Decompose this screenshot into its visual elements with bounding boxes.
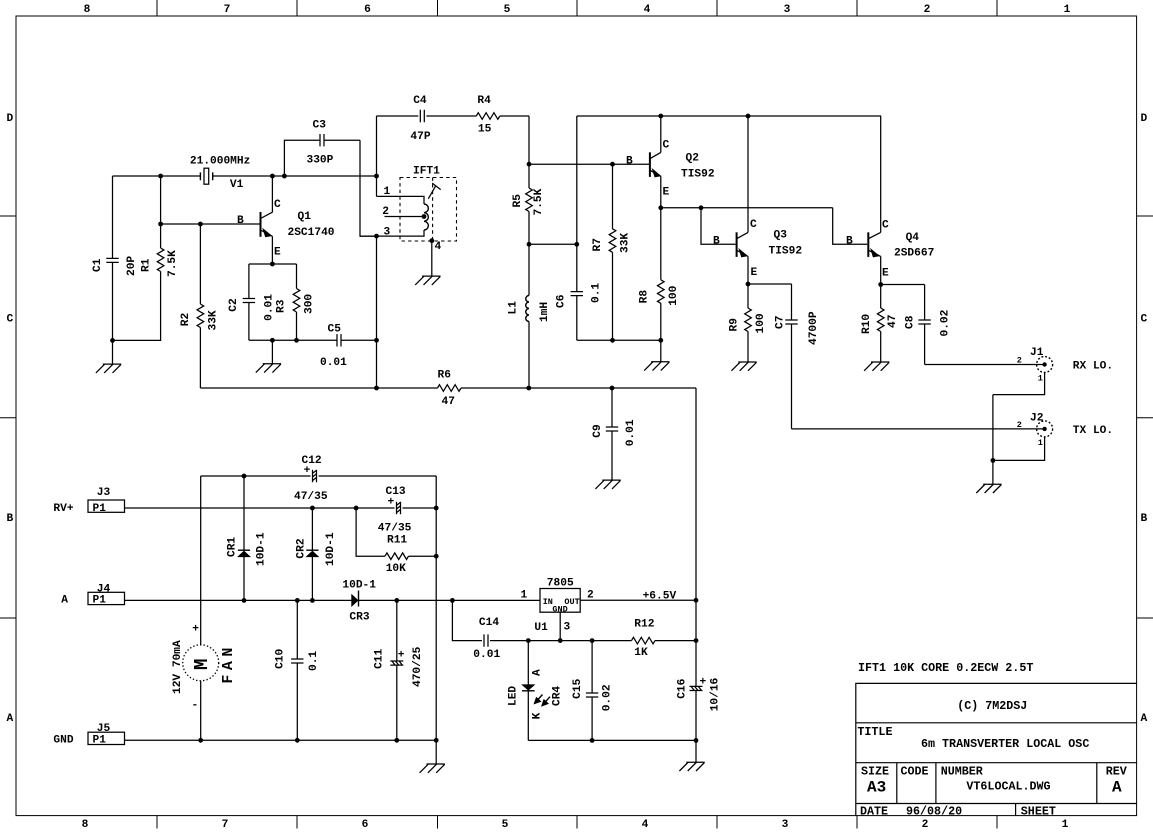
ground J1/J2 shield (992, 460, 994, 484)
svg-text:RX LO.: RX LO. (1073, 360, 1113, 372)
svg-text:96/08/20: 96/08/20 (906, 805, 962, 819)
capacitor C15 (591, 641, 593, 741)
capacitor C7 (748, 284, 792, 429)
svg-text:A: A (1112, 779, 1122, 797)
junction (160.6,176) (158, 174, 163, 179)
capacitor C3 loop (284, 140, 376, 236)
junction (612.5,164.2) (610, 162, 615, 167)
svg-text:B: B (1140, 513, 1147, 525)
svg-text:1mH: 1mH (539, 302, 551, 322)
junction (200.7,740.3) (198, 738, 203, 743)
junction (529,244.3) (527, 242, 532, 247)
svg-text:1: 1 (1062, 819, 1069, 831)
svg-text:A: A (1140, 713, 1147, 725)
junction (297.3,740.3) (295, 738, 300, 743)
svg-text:+: + (700, 677, 707, 689)
ground Q2 stage (660, 340, 662, 362)
resistor R12 (632, 637, 656, 644)
regulator U1 7805 box (540, 589, 580, 613)
svg-text:R11: R11 (387, 534, 407, 546)
junction (160.6,224) (158, 222, 163, 227)
junction (296.5,340.3) (294, 338, 299, 343)
svg-text:4: 4 (642, 819, 649, 831)
ground under R10 (864, 362, 889, 371)
junction (284.4,176) (282, 174, 287, 179)
junction (696,640.6) (694, 638, 699, 643)
svg-text:P1: P1 (93, 734, 107, 746)
resistor R5 (528, 164, 530, 244)
wire C2 bottom rail y=340.3 (249, 339, 297, 341)
svg-text:VT6LOCAL.DWG: VT6LOCAL.DWG (966, 780, 1050, 794)
svg-text:0.02: 0.02 (940, 309, 952, 336)
svg-text:CR1: CR1 (227, 537, 239, 557)
svg-text:P1: P1 (93, 503, 107, 515)
resistor R1 (113, 176, 161, 340)
svg-text:33K: 33K (208, 310, 220, 330)
capacitor C4 (420, 110, 424, 122)
connector J3 box (88, 500, 125, 512)
junction (701,207.8) (699, 205, 704, 210)
LED CR4 (527, 641, 529, 741)
wire R6 rail y=388 (200, 387, 696, 389)
transistor Q2 (649, 152, 651, 177)
resistor R7 (612, 164, 614, 340)
svg-text:R3: R3 (276, 299, 288, 313)
svg-text:0.1: 0.1 (591, 283, 603, 303)
svg-text:1K: 1K (634, 647, 648, 659)
IFT1 transformer (400, 178, 457, 242)
svg-text:C5: C5 (328, 324, 342, 336)
svg-text:C15: C15 (572, 678, 584, 698)
svg-text:7805: 7805 (547, 578, 574, 590)
capacitor C2 (248, 264, 250, 340)
bottom ruler labels (82, 819, 1069, 831)
capacitor C13 (397, 502, 401, 514)
svg-text:IFT1 10K CORE 0.2ECW 2.5T: IFT1 10K CORE 0.2ECW 2.5T (858, 661, 1033, 675)
svg-text:2: 2 (924, 4, 931, 16)
resistor R9 (747, 284, 749, 362)
svg-text:CR4: CR4 (551, 686, 563, 706)
capacitor C9 (611, 388, 613, 480)
wire to J2 (792, 428, 1045, 430)
ground under R9 (731, 362, 756, 371)
svg-text:3: 3 (782, 819, 789, 831)
svg-text:-: - (192, 700, 199, 712)
svg-text:C: C (1140, 314, 1147, 326)
svg-text:A: A (531, 669, 543, 676)
svg-text:C: C (882, 219, 889, 231)
svg-text:CR2: CR2 (296, 538, 308, 558)
bottom ruler ticks (157, 816, 997, 829)
wire Q4 base drop (833, 208, 868, 244)
wire Q2 base rail y=164.2 (529, 163, 649, 165)
svg-text:Q2: Q2 (686, 153, 700, 165)
capacitor C14 (484, 634, 488, 646)
capacitor C12 (313, 470, 317, 482)
wire J1 pin1 to ground net (993, 373, 1045, 461)
junction (592.1,740.4) (590, 738, 595, 743)
junction (200.4,224) (198, 222, 203, 227)
svg-text:R12: R12 (634, 619, 654, 631)
svg-text:E: E (274, 247, 281, 259)
transistor Q4 (867, 232, 869, 257)
ground under C1 (96, 364, 121, 373)
junction (612,388) (610, 386, 615, 391)
wire C4 node vertical x=376.5 (376, 116, 378, 196)
svg-text:E: E (663, 187, 670, 199)
junction (748,284) (746, 282, 751, 287)
svg-text:B: B (846, 236, 853, 248)
junction (356.1,508) (354, 506, 359, 511)
svg-text:B: B (713, 235, 720, 247)
wire +6.5V rail y=600.3 (580, 599, 696, 601)
svg-text:300: 300 (304, 294, 316, 314)
ground power input (435, 740, 437, 764)
junction (880.7,284.5) (878, 282, 883, 287)
svg-text:R7: R7 (592, 238, 604, 251)
svg-text:47/35: 47/35 (378, 523, 412, 535)
left ruler labels (6, 113, 13, 725)
svg-text:15: 15 (478, 124, 492, 136)
svg-text:2SC1740: 2SC1740 (288, 227, 335, 239)
svg-text:C3: C3 (313, 120, 327, 132)
svg-text:8: 8 (82, 819, 89, 831)
svg-text:2: 2 (1017, 356, 1022, 366)
svg-text:47P: 47P (410, 131, 430, 143)
junction (992.9,460.4) (991, 458, 996, 463)
junction (297.3,600.4) (295, 598, 300, 603)
svg-text:3: 3 (384, 226, 391, 238)
junction (424,216.5) (422, 214, 427, 219)
junction (272.4,340.3) (270, 338, 275, 343)
svg-text:330P: 330P (307, 155, 334, 167)
svg-text:47: 47 (887, 315, 899, 328)
svg-text:D: D (6, 113, 13, 125)
svg-text:LED: LED (508, 686, 520, 706)
svg-text:FAN: FAN (220, 643, 237, 684)
junction (376.5,388) (374, 386, 379, 391)
svg-text:7.5K: 7.5K (167, 250, 179, 277)
svg-text:SHEET: SHEET (1021, 805, 1056, 819)
svg-text:E: E (882, 267, 889, 279)
junction (312.4,508) (310, 506, 315, 511)
capacitor C11 (396, 600, 398, 740)
wire RV+ rail y=507.5 (125, 507, 437, 509)
junction (376.5,236.1) (374, 234, 379, 239)
wire A rail y=600.4 (125, 599, 541, 601)
svg-text:C11: C11 (374, 648, 386, 668)
resistor R4 (476, 113, 500, 120)
svg-text:C1: C1 (92, 258, 104, 272)
svg-text:C2: C2 (228, 298, 240, 312)
resistor R2 (199, 224, 201, 388)
capacitor C6 (576, 116, 578, 340)
capacitor C16 (695, 600, 697, 740)
svg-text:R5: R5 (512, 194, 524, 208)
svg-text:U1: U1 (534, 622, 548, 634)
right ruler labels (1140, 113, 1147, 725)
svg-text:+6.5V: +6.5V (643, 590, 677, 602)
svg-text:47: 47 (442, 396, 455, 408)
junction (529,164.2) (527, 162, 532, 167)
svg-text:C4: C4 (413, 95, 427, 107)
svg-text:C8: C8 (905, 315, 917, 329)
wire Q2 emitter rail y=207.8 (661, 207, 833, 209)
title block box (856, 683, 1137, 815)
svg-text:D: D (1140, 113, 1147, 125)
wire top rail C4/R4 y=116 (377, 116, 530, 164)
junction (576.8,244.3) (574, 242, 579, 247)
svg-text:A3: A3 (867, 779, 886, 797)
junction (560.2,640.6) (558, 638, 563, 643)
svg-text:10/16: 10/16 (710, 677, 722, 711)
svg-text:L1: L1 (508, 301, 520, 315)
svg-text:100: 100 (755, 313, 767, 333)
junction (431.8,240.7) (429, 238, 434, 243)
svg-text:7: 7 (222, 819, 229, 831)
svg-text:IFT1: IFT1 (413, 166, 440, 178)
svg-text:J2: J2 (1030, 413, 1044, 425)
svg-text:470/25: 470/25 (412, 646, 424, 687)
svg-text:TIS92: TIS92 (769, 246, 803, 258)
junction (112.5,340.4) (110, 338, 115, 343)
junction (696,600.3) (694, 598, 699, 603)
junction (244,476) (242, 474, 247, 479)
svg-text:CODE: CODE (901, 765, 929, 779)
wire top rail right segment y=116 (577, 115, 881, 117)
wire C14 rail y=640.6 (490, 640, 696, 642)
junction (272.4,176) (270, 174, 275, 179)
svg-text:TITLE: TITLE (857, 725, 892, 739)
junction (660.8,207.8) (658, 205, 663, 210)
resistor R6 (438, 385, 462, 392)
LED arrows (537, 695, 543, 701)
svg-text:E: E (751, 267, 758, 279)
svg-text:TIS92: TIS92 (681, 169, 715, 181)
junction (748,116) (746, 114, 751, 119)
junction (660.8,340.3) (658, 338, 663, 343)
svg-text:R6: R6 (438, 370, 452, 382)
junction (436.2,508) (434, 506, 439, 511)
diode CR3 (352, 595, 358, 606)
svg-text:C7: C7 (775, 316, 787, 329)
svg-text:1: 1 (1064, 4, 1071, 16)
wire fan feed vertical x=200.7 (200, 476, 202, 740)
svg-text:R2: R2 (180, 312, 192, 326)
junction (592.1,640.6) (590, 638, 595, 643)
svg-text:4: 4 (644, 4, 651, 16)
svg-text:GND: GND (53, 735, 73, 747)
svg-text:DATE: DATE (860, 805, 888, 819)
junction (660.8,116) (658, 114, 663, 119)
svg-text:0.01: 0.01 (473, 649, 500, 661)
svg-text:0.01: 0.01 (625, 419, 637, 446)
resistor R8 (660, 208, 662, 340)
svg-text:R9: R9 (729, 318, 741, 332)
svg-text:C: C (663, 140, 670, 152)
svg-text:6m TRANSVERTER LOCAL OSC: 6m TRANSVERTER LOCAL OSC (921, 737, 1089, 751)
svg-text:2SD667: 2SD667 (894, 248, 934, 260)
svg-text:7.5K: 7.5K (533, 188, 545, 215)
svg-text:TX LO.: TX LO. (1073, 425, 1113, 437)
svg-text:C: C (750, 219, 757, 231)
svg-text:J3: J3 (97, 487, 111, 499)
svg-text:C6: C6 (556, 294, 568, 308)
svg-text:B: B (237, 215, 244, 227)
IFT1 pin4 ground (431, 241, 433, 276)
svg-text:GND: GND (552, 604, 567, 614)
svg-text:RV+: RV+ (53, 503, 73, 515)
svg-text:2: 2 (1017, 420, 1022, 430)
svg-text:21.000MHz: 21.000MHz (190, 156, 250, 168)
transistor Q3 (736, 232, 738, 257)
svg-text:A: A (6, 713, 13, 725)
svg-text:7: 7 (224, 4, 231, 16)
junction (376.5,176) (374, 174, 379, 179)
right ruler ticks (1137, 216, 1153, 618)
svg-text:20P: 20P (126, 256, 138, 276)
junction (452.4,600.4) (450, 598, 455, 603)
svg-text:10D-1: 10D-1 (325, 532, 337, 566)
svg-text:4: 4 (435, 241, 442, 253)
svg-text:1: 1 (1038, 438, 1043, 448)
svg-text:SIZE: SIZE (861, 765, 889, 779)
svg-text:Q4: Q4 (906, 232, 920, 244)
junction (272.4,264) (270, 262, 275, 267)
connector J1 (1037, 357, 1053, 373)
capacitor C8 (881, 285, 925, 365)
wire +6.5V feed vertical x=696 (695, 388, 697, 600)
diode CR1 (243, 476, 245, 600)
connector J2 (1037, 421, 1053, 437)
capacitor C10 (296, 600, 298, 740)
svg-text:1: 1 (1038, 373, 1043, 383)
svg-text:2: 2 (382, 206, 389, 218)
svg-text:0.1: 0.1 (308, 651, 320, 671)
svg-text:5: 5 (504, 4, 511, 16)
svg-text:3: 3 (564, 621, 571, 633)
svg-text:Q1: Q1 (298, 211, 312, 223)
svg-text:REV: REV (1106, 765, 1127, 779)
crystal V1 (200, 172, 212, 180)
connector J5 box (88, 732, 125, 744)
resistor R10 (880, 285, 882, 363)
svg-text:B: B (6, 513, 13, 525)
svg-text:+: + (398, 650, 405, 662)
svg-text:R10: R10 (861, 314, 873, 334)
svg-text:8: 8 (84, 4, 91, 16)
svg-text:NUMBER: NUMBER (941, 765, 983, 779)
svg-text:C: C (274, 199, 281, 211)
wire C12 right vertical x=436.2 (435, 476, 437, 740)
junction (244,600.4) (242, 598, 247, 603)
ground under C9 (595, 480, 620, 489)
svg-text:33K: 33K (620, 233, 632, 253)
junction (312.4,600.4) (310, 598, 315, 603)
capacitor C5 (297, 339, 377, 341)
wire C12 top rail y=476 (201, 475, 437, 477)
motor FAN (183, 645, 219, 681)
svg-text:A: A (61, 595, 68, 607)
svg-text:+: + (388, 497, 395, 509)
connector J4 box (88, 592, 125, 604)
svg-text:2: 2 (922, 819, 929, 831)
svg-text:0.02: 0.02 (601, 684, 613, 711)
svg-text:0.01: 0.01 (264, 294, 276, 321)
wire GND rail y=740.3 (125, 739, 437, 741)
left ruler ticks (0, 216, 16, 618)
ground LED rail (695, 740, 697, 762)
svg-text:+: + (304, 465, 311, 477)
wire 7805 pin3 (559, 612, 561, 640)
junction (376.5,340.3) (374, 338, 379, 343)
wire pin3 node vertical x=376.5 (376, 236, 378, 388)
svg-text:M: M (191, 659, 213, 670)
svg-text:(C) 7M2DSJ: (C) 7M2DSJ (957, 699, 1027, 713)
svg-text:+: + (192, 623, 199, 635)
svg-text:10D-1: 10D-1 (342, 579, 376, 591)
svg-text:IN: IN (543, 597, 553, 607)
svg-text:J1: J1 (1030, 347, 1044, 359)
resistor R11 loop (356, 508, 436, 556)
top ruler labels (84, 4, 1071, 16)
diode CR2 (311, 508, 313, 600)
svg-text:C10: C10 (275, 648, 287, 668)
top ruler ticks (157, 0, 997, 16)
svg-text:B: B (626, 156, 633, 168)
svg-text:K: K (531, 712, 543, 719)
svg-text:47/35: 47/35 (294, 491, 328, 503)
wire Q2 bottom rail y=340.3 (577, 339, 661, 341)
svg-text:R8: R8 (639, 290, 651, 304)
junction (436.2,740.3) (434, 738, 439, 743)
svg-text:Q3: Q3 (774, 230, 788, 242)
svg-text:R4: R4 (477, 95, 491, 107)
wire Q1 emitter rail y=264 (249, 263, 297, 265)
junction (396.8,600.4) (394, 598, 399, 603)
svg-text:0.01: 0.01 (320, 357, 347, 369)
junction (396.8,740.3) (394, 738, 399, 743)
wire Q1 base rail y=224 (161, 223, 260, 225)
svg-text:C16: C16 (676, 678, 688, 698)
svg-text:1: 1 (521, 590, 528, 602)
svg-text:3: 3 (784, 4, 791, 16)
junction (436.2,556.2) (434, 554, 439, 559)
svg-text:V1: V1 (230, 179, 244, 191)
svg-text:5: 5 (502, 819, 509, 831)
svg-text:R1: R1 (141, 258, 153, 272)
svg-text:4700P: 4700P (808, 311, 820, 345)
wire Q3 base drop (701, 208, 736, 244)
svg-text:C: C (6, 314, 13, 326)
svg-text:1: 1 (384, 186, 391, 198)
junction (612.5,340.3) (610, 338, 615, 343)
svg-text:C9: C9 (592, 424, 604, 438)
svg-text:2: 2 (587, 590, 594, 602)
wire crystal rail y=176 (113, 175, 377, 177)
junction (696,740.4) (694, 738, 699, 743)
svg-text:CR3: CR3 (349, 612, 369, 624)
resistor R3 (296, 264, 298, 340)
wire C6 top rail y=244.3 (529, 243, 577, 245)
svg-text:P1: P1 (93, 595, 107, 607)
svg-text:6: 6 (364, 4, 371, 16)
junction (528.3,640.6) (526, 638, 531, 643)
svg-text:6: 6 (362, 819, 369, 831)
ground under C2 rail (271, 340, 273, 364)
capacitor C1 (112, 176, 114, 364)
svg-text:C14: C14 (479, 617, 499, 629)
